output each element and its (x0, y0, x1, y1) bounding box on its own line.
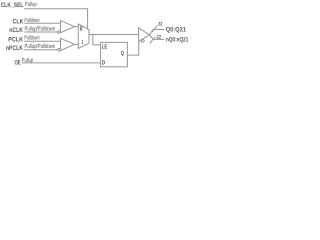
buffer B1 (CLK/nCLK) (61, 21, 75, 33)
wire B1 out to mux in0 (75, 26, 79, 28)
svg-text:nQ0:nQ21: nQ0:nQ21 (166, 36, 189, 43)
latch U1 (101, 42, 128, 66)
wire OE to latch D (22, 62, 101, 64)
wire CLK (24, 22, 60, 24)
bus slash Q (152, 26, 157, 32)
svg-text:Q: Q (121, 50, 124, 57)
wire PCLK (24, 40, 60, 42)
svg-text:CLK_SEL: CLK_SEL (1, 2, 24, 9)
svg-text:D: D (102, 60, 106, 67)
svg-text:nCLK: nCLK (9, 27, 23, 34)
svg-text:22: 22 (157, 34, 161, 40)
input bubble on nCLK (58, 31, 61, 34)
svg-text:Pullup: Pullup (22, 57, 34, 64)
svg-text:LE: LE (102, 43, 107, 50)
svg-text:22: 22 (158, 21, 162, 27)
wire CLK_SEL to mux select (24, 9, 87, 29)
wire nQ output (149, 35, 164, 40)
input bubble on nPCLK (58, 48, 61, 51)
svg-text:Pulldown: Pulldown (24, 17, 39, 24)
wire branch to latch LE (93, 35, 101, 45)
svg-text:nPCLK: nPCLK (6, 45, 23, 52)
svg-text:Q0:Q21: Q0:Q21 (166, 27, 187, 34)
wire Q output (149, 30, 164, 35)
svg-text:Pulldown: Pulldown (24, 35, 39, 42)
svg-text:OE: OE (15, 60, 21, 67)
wire B2 out to mux in1 (75, 43, 79, 45)
svg-text:Pullup/Pulldown: Pullup/Pulldown (25, 43, 56, 50)
enable bubble on driver (141, 40, 144, 43)
wire mux out to output driver (89, 34, 139, 36)
bus slash nQ (150, 37, 155, 44)
output driver triangle (139, 28, 150, 42)
wire nPCLK (24, 49, 58, 51)
mux (78, 24, 89, 49)
buffer B2 (PCLK/nPCLK) (61, 38, 75, 50)
svg-text:Pullup/Pulldown: Pullup/Pulldown (25, 26, 56, 33)
wire latch Q to driver enable (127, 42, 138, 55)
svg-text:PCLK: PCLK (8, 36, 23, 43)
wire nCLK (24, 31, 58, 33)
svg-text:CLK: CLK (13, 18, 24, 25)
svg-text:Pullup: Pullup (25, 1, 37, 8)
